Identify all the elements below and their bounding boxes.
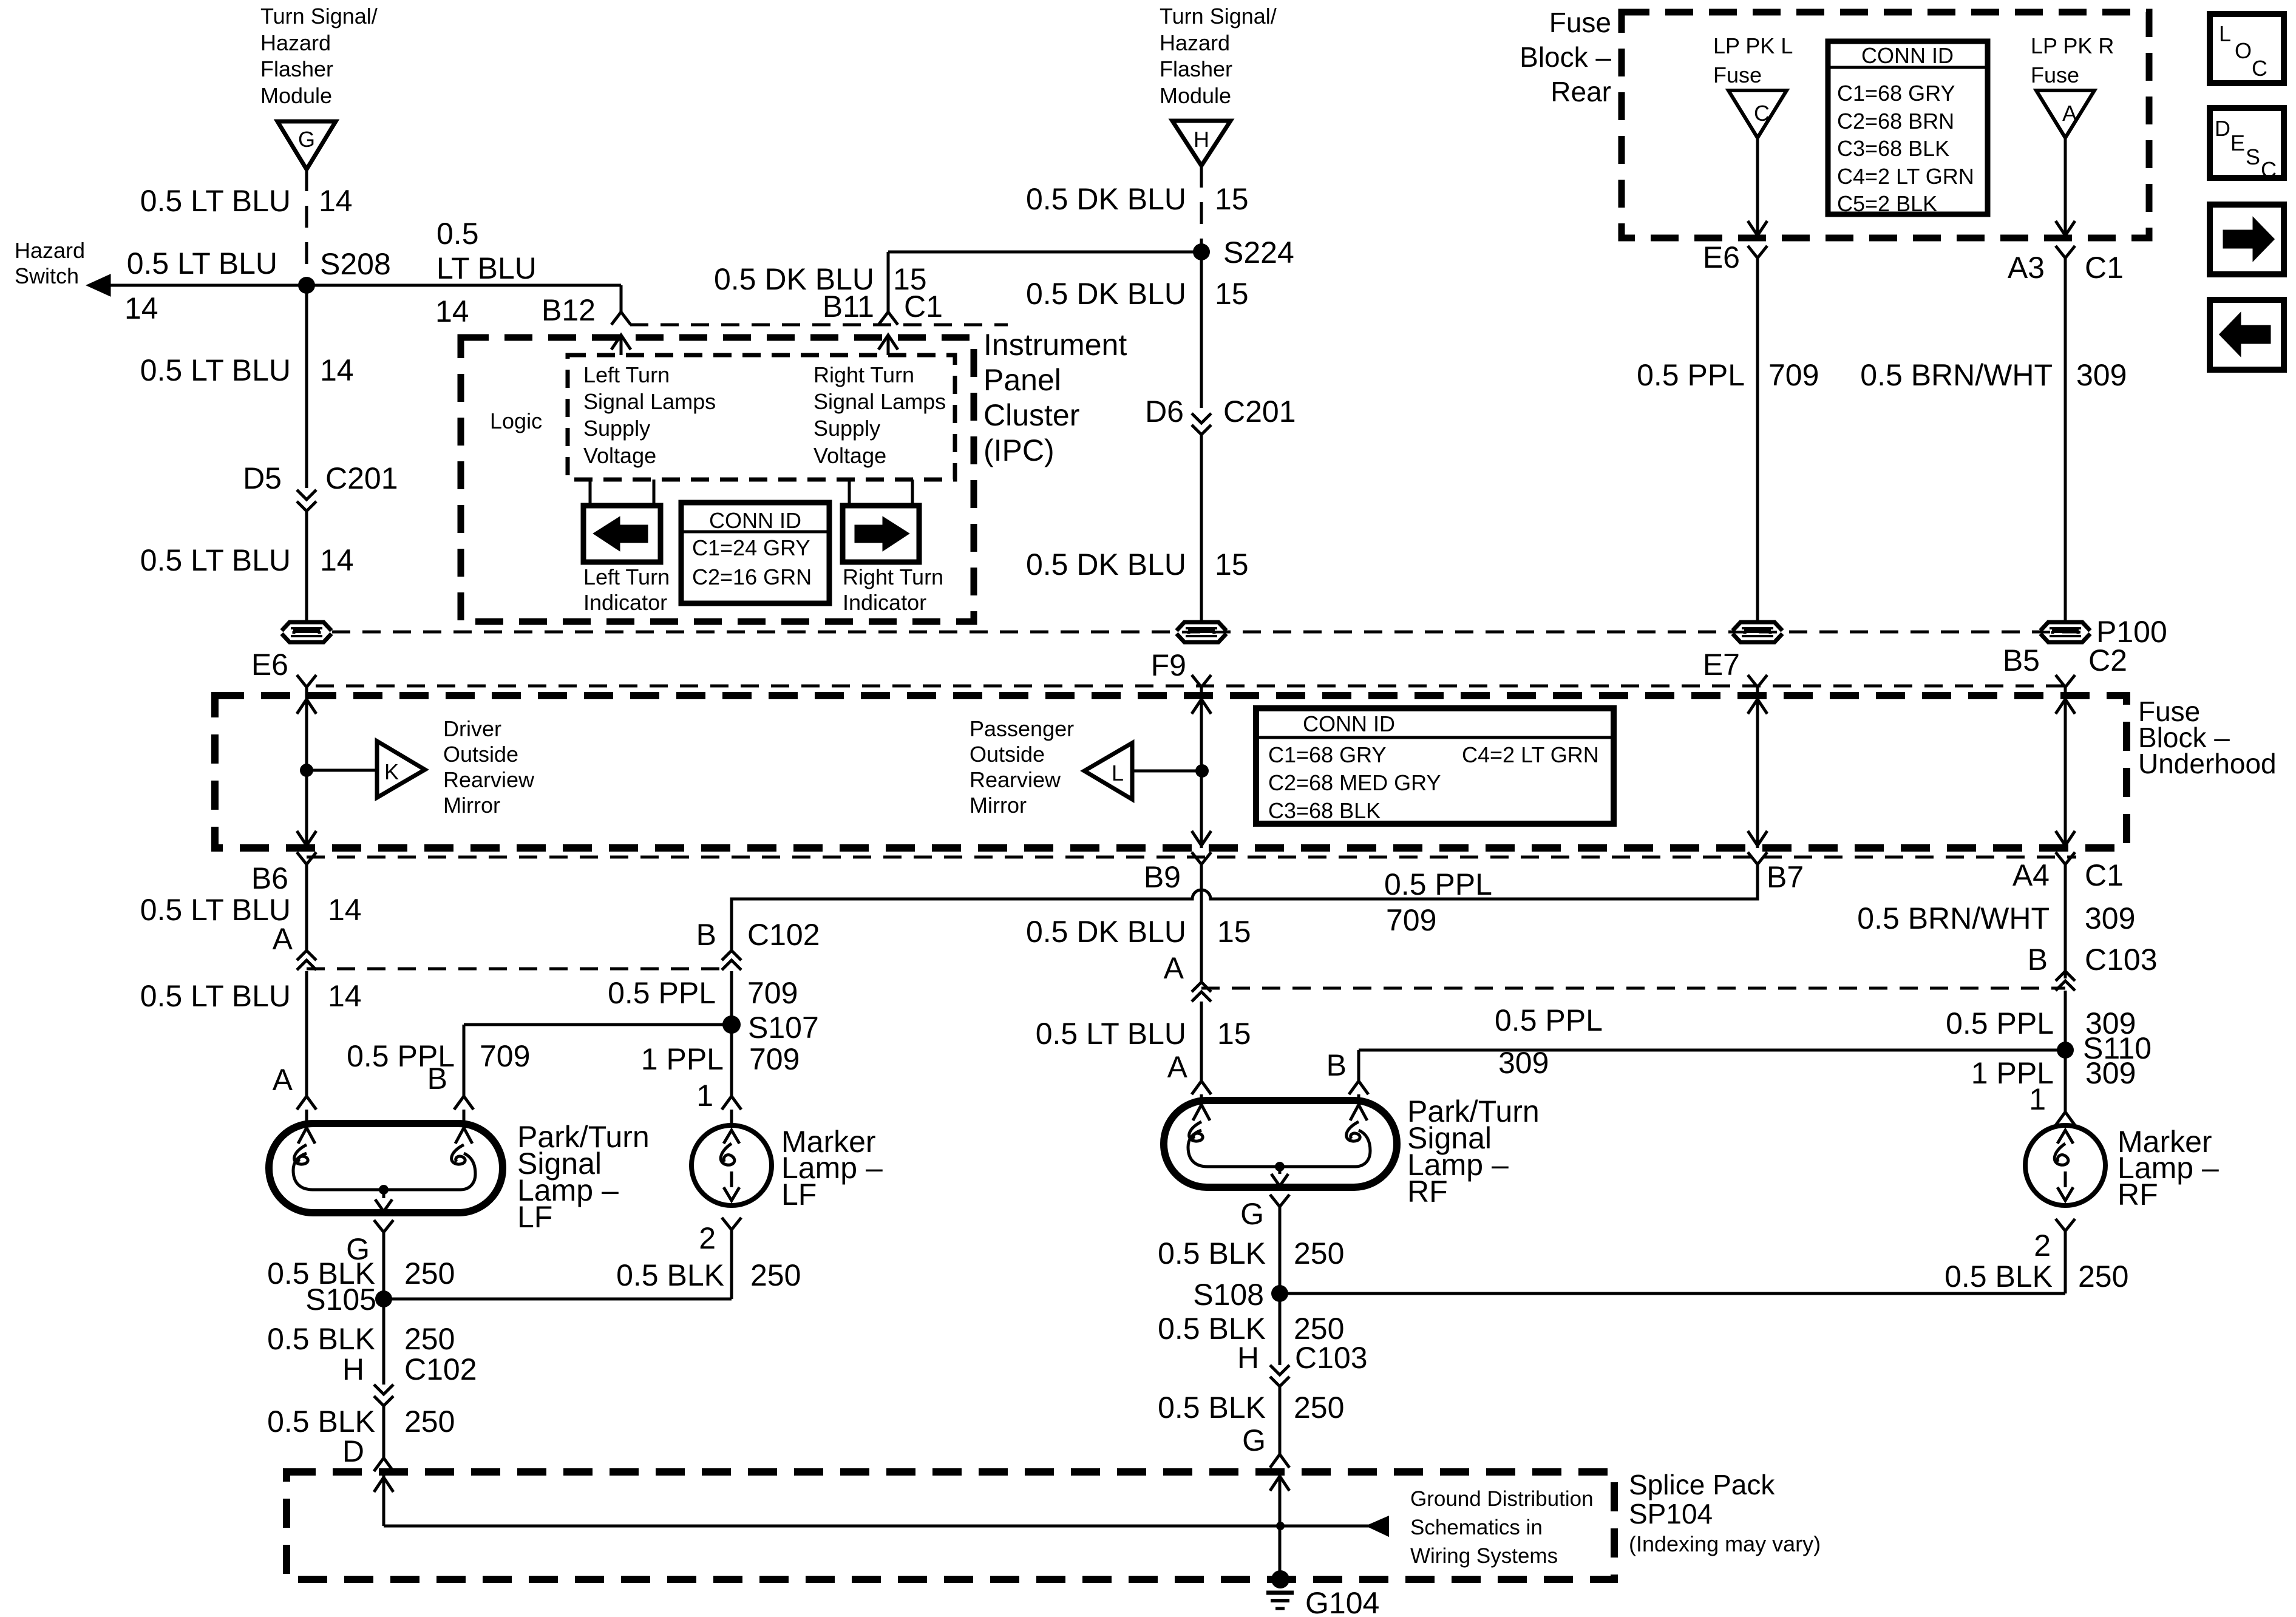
connector C103 pin A	[1192, 982, 1211, 1002]
svg-text:(Indexing may vary): (Indexing may vary)	[1629, 1531, 1821, 1556]
svg-text:C: C	[1754, 101, 1770, 126]
pin E6 fork	[297, 675, 316, 697]
branch S107 to LF lamp B	[464, 1025, 732, 1096]
label 0.5 LT BLU 15 (to RF lamp)	[1036, 1017, 1251, 1051]
svg-text:C102: C102	[404, 1352, 477, 1386]
wire E6 to P100	[1756, 258, 1759, 622]
svg-text:Flasher: Flasher	[260, 56, 333, 81]
fuse block rear box	[1622, 12, 2149, 238]
park/turn signal lamp RF body	[1164, 1100, 1397, 1187]
svg-text:Signal Lamps: Signal Lamps	[583, 389, 716, 414]
svg-text:309: 309	[2085, 901, 2135, 935]
svg-text:S: S	[2246, 144, 2260, 169]
label E6 (underhood pin)	[251, 648, 288, 682]
right turn indicator box	[843, 506, 919, 562]
label 0.5 DK BLU 15 (S224-D6)	[1026, 277, 1249, 311]
svg-text:C2=16 GRN: C2=16 GRN	[692, 564, 812, 589]
svg-text:15: 15	[1215, 547, 1249, 581]
svg-text:0.5 BLK: 0.5 BLK	[1944, 1259, 2053, 1293]
svg-text:1: 1	[2029, 1082, 2046, 1116]
svg-text:D6: D6	[1145, 395, 1184, 429]
ground distribution label	[1410, 1487, 1594, 1568]
svg-text:SP104: SP104	[1629, 1498, 1713, 1530]
label 1 PPL 309	[1971, 1056, 2136, 1090]
pins A3 C1 fork below rear fuse block	[2008, 246, 2124, 285]
svg-text:14: 14	[320, 543, 354, 577]
LP PK R fuse label	[2031, 33, 2114, 87]
turn signal/hazard flasher module label (center)	[1160, 4, 1277, 108]
svg-text:G: G	[1242, 1423, 1266, 1457]
wire S208 down to D5	[305, 285, 308, 488]
pin G of LF lamp	[346, 1220, 393, 1299]
park/turn RF label	[1407, 1094, 1540, 1209]
svg-text:A3: A3	[2008, 251, 2045, 285]
passenger mirror junction	[1132, 764, 1209, 778]
label 0.5 BLK 250 (marker LF)	[616, 1258, 801, 1292]
wire dashed from G to S208	[305, 169, 308, 284]
svg-text:Hazard: Hazard	[260, 30, 331, 55]
label E7	[1703, 648, 1740, 682]
label 0.5 LT BLU (to hazard switch)	[124, 246, 277, 325]
svg-text:LF: LF	[781, 1178, 817, 1212]
C102 dashed plane line	[307, 968, 732, 971]
fuse block rear label	[1520, 7, 1611, 107]
svg-text:0.5 BLK: 0.5 BLK	[1158, 1236, 1266, 1270]
svg-text:Hazard: Hazard	[1160, 30, 1230, 55]
svg-text:B: B	[2028, 943, 2048, 977]
IPC logic inner dashed box	[568, 355, 955, 480]
pin E7 fork	[1748, 675, 1767, 697]
splice S107	[722, 1011, 819, 1045]
svg-text:LT BLU: LT BLU	[436, 251, 537, 285]
svg-text:G104: G104	[1305, 1586, 1379, 1617]
label 1 PPL 709	[641, 1042, 800, 1076]
connector C103 pin H	[1237, 1293, 1368, 1454]
branch S110 to RF lamp B	[1359, 1050, 2065, 1081]
svg-text:C4=2 LT GRN: C4=2 LT GRN	[1462, 742, 1599, 767]
wire C102-A to lamp	[305, 971, 308, 1096]
svg-text:B12: B12	[542, 293, 596, 327]
svg-text:S208: S208	[320, 247, 391, 281]
svg-text:14: 14	[319, 184, 353, 218]
label 0.5 LT BLU 14 (G-S208)	[140, 184, 353, 218]
label F9 (underhood pin)	[1151, 648, 1186, 682]
labels B C103	[2028, 943, 2158, 977]
svg-text:0.5 LT BLU: 0.5 LT BLU	[140, 543, 291, 577]
svg-text:250: 250	[404, 1256, 455, 1290]
svg-text:B5: B5	[2003, 643, 2040, 677]
svg-text:0.5 LT BLU: 0.5 LT BLU	[140, 184, 291, 218]
svg-text:H: H	[342, 1352, 364, 1386]
svg-text:0.5 PPL: 0.5 PPL	[1637, 358, 1745, 392]
svg-text:Turn Signal/: Turn Signal/	[1160, 4, 1277, 29]
svg-text:0.5 PPL: 0.5 PPL	[1384, 867, 1492, 901]
RF lamp B filament	[1347, 1105, 1367, 1141]
svg-text:S107: S107	[748, 1011, 819, 1045]
svg-text:C102: C102	[747, 918, 820, 952]
splice S108	[1193, 1278, 1288, 1312]
svg-text:E6: E6	[251, 648, 288, 682]
svg-text:Supply: Supply	[583, 416, 650, 441]
left indicator stubs	[590, 480, 654, 506]
wire S208 to hazard switch with arrow	[89, 276, 307, 294]
svg-text:C103: C103	[1295, 1341, 1368, 1375]
svg-text:D: D	[2215, 116, 2230, 141]
underhood conn id text	[1268, 711, 1599, 823]
svg-text:Outside: Outside	[443, 742, 518, 767]
svg-text:309: 309	[2085, 1056, 2136, 1090]
label 0.5 BLK 250 (LF G)	[267, 1256, 455, 1290]
label 0.5 PPL over horizontal	[1384, 867, 1492, 937]
inline connector P100 on BRN/WHT wire	[2040, 622, 2090, 642]
underhood conn id box	[1256, 708, 1614, 824]
svg-text:C2: C2	[2088, 643, 2127, 677]
wire A fuse down	[2056, 138, 2075, 236]
svg-text:15: 15	[1217, 915, 1251, 949]
rear conn id text	[1837, 43, 1974, 216]
pin A of LF lamp	[273, 1063, 316, 1124]
label 0.5 LT BLU 14 (S208-D5)	[140, 353, 354, 387]
pin B5 fork	[2056, 675, 2075, 697]
svg-text:B11: B11	[823, 290, 874, 324]
svg-text:S105: S105	[305, 1283, 376, 1317]
svg-text:Flasher: Flasher	[1160, 56, 1232, 81]
svg-text:H: H	[1237, 1341, 1259, 1375]
svg-text:14: 14	[435, 294, 469, 328]
RF lamp A filament	[1189, 1105, 1210, 1141]
svg-text:E: E	[2230, 131, 2245, 155]
svg-text:Splice Pack: Splice Pack	[1629, 1469, 1775, 1500]
svg-text:B7: B7	[1767, 860, 1804, 894]
svg-text:B6: B6	[251, 861, 288, 895]
wire B6 to C102-A	[305, 864, 308, 951]
svg-text:Right Turn: Right Turn	[813, 362, 914, 387]
svg-text:Hazard: Hazard	[15, 238, 85, 263]
svg-text:Voltage: Voltage	[813, 443, 886, 468]
pin G of RF lamp	[1240, 1195, 1289, 1293]
flasher module connector triangle G	[277, 121, 336, 169]
svg-text:Logic: Logic	[490, 408, 542, 433]
wire S105 to marker LF drop	[384, 1298, 732, 1301]
wire B9 to C103-A	[1200, 864, 1203, 982]
svg-text:0.5 PPL: 0.5 PPL	[1946, 1006, 2054, 1040]
svg-text:A: A	[2062, 101, 2077, 126]
body harness dashed line above fuse block	[316, 685, 2076, 688]
labels 14 B12	[435, 293, 596, 328]
svg-text:A: A	[1164, 951, 1184, 985]
pin B9 fork	[1144, 852, 1211, 894]
wire S108 to marker RF drop	[1280, 1292, 2065, 1295]
svg-text:14: 14	[328, 893, 362, 927]
marker lamp LF bulb	[691, 1125, 772, 1205]
svg-text:0.5 PPL: 0.5 PPL	[1495, 1003, 1603, 1037]
park/turn signal lamp LF body	[269, 1124, 503, 1213]
wire G into splice pack	[1270, 1471, 1289, 1579]
driver mirror junction	[300, 764, 377, 777]
svg-text:C: C	[2261, 157, 2277, 182]
pin B of LF lamp	[427, 1062, 474, 1124]
splice pack SP104 box	[287, 1472, 1614, 1579]
wire S224 to B11 stub	[888, 252, 1201, 312]
svg-text:Cluster: Cluster	[983, 398, 1079, 432]
svg-text:S224: S224	[1223, 236, 1294, 269]
svg-text:14: 14	[320, 353, 354, 387]
left turn indicator box	[583, 506, 661, 562]
wire C102-B to marker LF	[730, 971, 733, 1096]
left turn supply voltage label	[583, 362, 716, 468]
svg-text:Schematics in: Schematics in	[1410, 1516, 1543, 1539]
svg-text:C201: C201	[1223, 395, 1296, 429]
svg-text:Wiring Systems: Wiring Systems	[1410, 1544, 1558, 1568]
inline connector P100 on PPL wire	[1733, 622, 1782, 642]
connector C201 pin D6	[1145, 395, 1296, 435]
svg-text:A4: A4	[2012, 858, 2050, 892]
svg-text:250: 250	[404, 1405, 455, 1439]
wire C103-B to marker RF	[2064, 991, 2067, 1112]
marker lamp RF bulb	[2025, 1125, 2105, 1205]
svg-text:C1: C1	[2085, 251, 2124, 285]
wire D into splice pack	[374, 1475, 393, 1526]
label 0.5 PPL 309 (below C103)	[1946, 1006, 2136, 1040]
svg-text:309: 309	[1498, 1046, 1549, 1080]
svg-text:Fuse: Fuse	[1549, 7, 1611, 38]
label 0.5 BRN/WHT 309 (A4)	[1857, 901, 2135, 935]
pin B7 fork	[1748, 852, 1804, 894]
ground distribution reference arrow	[1280, 1517, 1388, 1535]
driver mirror label	[443, 716, 535, 818]
svg-text:CONN ID: CONN ID	[1861, 43, 1954, 68]
svg-text:CONN ID: CONN ID	[1303, 711, 1395, 736]
RF lamp ground junction	[1271, 1162, 1288, 1186]
fuse wire inside block (BRN/WHT)	[2056, 696, 2075, 848]
fuse wire inside block (DK BLU)	[1192, 696, 1211, 848]
P100 dashed plane line	[332, 631, 2090, 634]
svg-text:1: 1	[696, 1079, 713, 1113]
IPC conn id text	[692, 508, 812, 589]
pin B12 fork into IPC	[611, 312, 631, 355]
label 0.5 PPL 709 (below C102)	[608, 976, 798, 1010]
svg-text:CONN ID: CONN ID	[709, 508, 801, 533]
svg-text:Passenger: Passenger	[970, 716, 1074, 741]
svg-text:Panel: Panel	[983, 363, 1061, 397]
svg-text:C3=68 BLK: C3=68 BLK	[1268, 798, 1381, 823]
connector C102 pin A	[297, 951, 316, 970]
label 0.5 DK BLU 15 (H-S224)	[1026, 182, 1249, 216]
svg-text:A: A	[273, 1063, 293, 1097]
labels A4 C1	[2012, 858, 2124, 892]
svg-text:Outside: Outside	[970, 742, 1045, 767]
svg-text:C103: C103	[2085, 943, 2158, 977]
label 0.5 BLK 250 (below S105)	[267, 1322, 455, 1356]
label 0.5 BLK 250 (below C103 H)	[1158, 1391, 1344, 1425]
RF lamp inner loop	[1188, 1130, 1370, 1167]
pin D fork at splice pack	[342, 1434, 393, 1471]
svg-text:C1: C1	[904, 290, 943, 324]
svg-text:LP PK R: LP PK R	[2031, 33, 2114, 58]
svg-text:0.5 PPL: 0.5 PPL	[608, 976, 716, 1010]
wire dashed from H to S224	[1200, 166, 1203, 251]
svg-text:C1=68 GRY: C1=68 GRY	[1837, 81, 1955, 106]
svg-text:709: 709	[1386, 903, 1436, 937]
label 0.5 BRN/WHT 309	[1860, 358, 2127, 392]
svg-text:Module: Module	[260, 83, 332, 108]
svg-text:0.5: 0.5	[436, 217, 479, 251]
inline connector P100 on DK BLU wire	[1177, 622, 1226, 642]
svg-text:0.5 BLK: 0.5 BLK	[267, 1322, 375, 1356]
svg-text:C2=68 BRN: C2=68 BRN	[1837, 109, 1954, 134]
svg-text:RF: RF	[1407, 1175, 1448, 1209]
svg-text:Turn Signal/: Turn Signal/	[260, 4, 378, 29]
fuse triangle C	[1728, 90, 1787, 138]
svg-text:309: 309	[2076, 358, 2127, 392]
svg-text:709: 709	[747, 976, 798, 1010]
svg-text:Rearview: Rearview	[443, 767, 535, 792]
svg-text:A: A	[273, 922, 293, 956]
svg-text:G: G	[1240, 1197, 1264, 1231]
label 0.5 BLK 250 (RF G)	[1158, 1236, 1344, 1270]
svg-text:C2=68 MED GRY: C2=68 MED GRY	[1268, 770, 1441, 795]
hazard switch label	[15, 238, 85, 288]
left arrow box	[2210, 300, 2284, 370]
svg-text:Right Turn: Right Turn	[843, 564, 943, 589]
svg-text:G: G	[298, 127, 315, 152]
svg-text:C1=24 GRY: C1=24 GRY	[692, 535, 810, 560]
labels B5 C2	[2003, 643, 2127, 677]
flasher module connector triangle H	[1172, 121, 1231, 166]
svg-text:Supply: Supply	[813, 416, 880, 441]
label 0.5 LT BLU 14 (D5-P100)	[140, 543, 354, 577]
svg-text:B: B	[1326, 1048, 1347, 1082]
svg-text:Voltage: Voltage	[583, 443, 656, 468]
svg-text:709: 709	[749, 1042, 800, 1076]
svg-text:D5: D5	[243, 461, 282, 495]
marker RF label	[2118, 1125, 2219, 1212]
fuse block underhood box	[215, 696, 2127, 848]
svg-text:0.5 BRN/WHT: 0.5 BRN/WHT	[1857, 901, 2050, 935]
svg-text:C201: C201	[325, 461, 398, 495]
svg-text:0.5 BLK: 0.5 BLK	[1158, 1391, 1266, 1425]
fuse triangle A	[2036, 90, 2094, 138]
wire D5 to P100	[305, 511, 308, 622]
svg-text:D: D	[342, 1434, 364, 1468]
svg-text:Indicator: Indicator	[843, 590, 926, 615]
IPC connector dashed line	[630, 324, 1008, 327]
pin E6 fork below rear fuse block	[1703, 240, 1767, 274]
connector C102 pin H	[342, 1299, 477, 1458]
LF lamp inner loop	[293, 1153, 475, 1190]
label 0.5 DK BLU 15 (B9)	[1026, 915, 1251, 949]
instrument panel cluster box	[461, 337, 974, 622]
svg-text:L: L	[2219, 21, 2231, 46]
pin 2 of marker RF	[2034, 1219, 2075, 1293]
svg-text:0.5 LT BLU: 0.5 LT BLU	[1036, 1017, 1186, 1051]
wire S208 to B12 stub	[307, 285, 621, 312]
pin B6 fork	[251, 852, 316, 895]
park/turn LF label	[517, 1120, 650, 1234]
splice pack internal bus	[384, 1522, 1285, 1530]
svg-text:C: C	[2252, 56, 2267, 81]
svg-text:S108: S108	[1193, 1278, 1264, 1312]
svg-text:1 PPL: 1 PPL	[641, 1042, 724, 1076]
splice S105	[305, 1283, 392, 1317]
LF lamp A filament	[294, 1128, 315, 1164]
label 0.5 PPL over branch	[1495, 1003, 1603, 1080]
svg-text:Mirror: Mirror	[443, 793, 500, 818]
svg-text:Underhood: Underhood	[2138, 748, 2277, 779]
svg-text:0.5 LT BLU: 0.5 LT BLU	[140, 979, 291, 1013]
svg-text:C5=2 BLK: C5=2 BLK	[1837, 191, 1937, 216]
label 0.5 PPL 709 (lamp B)	[347, 1039, 530, 1073]
pin 1 of marker RF	[2029, 1082, 2075, 1125]
svg-text:B9: B9	[1144, 860, 1181, 894]
svg-text:2: 2	[2034, 1229, 2051, 1263]
connector C102 pin B	[722, 951, 741, 970]
body harness dashed line below fuse block	[307, 856, 2076, 859]
svg-text:C1: C1	[2085, 858, 2124, 892]
splice S110	[2057, 1031, 2152, 1065]
label 0.5 DK BLU 15 (S224-B11)	[714, 262, 927, 296]
label 0.5 PPL 709	[1637, 358, 1819, 392]
svg-text:LF: LF	[517, 1200, 552, 1234]
C103 dashed plane line	[1201, 987, 2065, 990]
svg-text:0.5 LT BLU: 0.5 LT BLU	[127, 246, 277, 280]
label 0.5 DK BLU 15 (D6-P100)	[1026, 547, 1249, 581]
pin 2 of marker LF	[699, 1218, 741, 1299]
svg-text:15: 15	[1215, 182, 1249, 216]
passenger outside rearview mirror triangle L	[1084, 743, 1132, 799]
wire C103-A to RF lamp	[1200, 1002, 1203, 1081]
pin G fork at splice pack	[1242, 1423, 1289, 1468]
svg-text:250: 250	[1294, 1391, 1344, 1425]
svg-text:O: O	[2235, 38, 2252, 63]
right indicator stubs	[849, 480, 912, 506]
svg-text:Driver: Driver	[443, 716, 501, 741]
label 0.5 LT BLU 14 (to lamp)	[140, 979, 362, 1013]
svg-text:Signal Lamps: Signal Lamps	[813, 389, 946, 414]
label 0.5 LT BLU (S208-B12)	[436, 217, 537, 285]
svg-text:0.5 LT BLU: 0.5 LT BLU	[140, 893, 291, 927]
connector C201 pin D5	[243, 461, 398, 511]
rear conn id box	[1828, 41, 1988, 214]
LF lamp ground junction	[375, 1185, 392, 1212]
passenger mirror label	[970, 716, 1074, 818]
label P100	[2096, 615, 2167, 649]
right arrow box	[2210, 205, 2284, 274]
svg-text:Rear: Rear	[1550, 76, 1611, 107]
pin B11 fork into IPC	[878, 312, 898, 355]
pin 1 of marker LF	[696, 1079, 741, 1125]
svg-text:Switch: Switch	[15, 263, 79, 288]
fuse block underhood label	[2138, 696, 2277, 779]
wire D6 to P100	[1200, 435, 1203, 622]
svg-text:E7: E7	[1703, 648, 1740, 682]
wire A4 to C103-B	[2056, 852, 2075, 978]
driver outside rearview mirror triangle K	[377, 741, 425, 798]
marker LF label	[781, 1125, 883, 1212]
inline connector P100 on LT BLU wire	[282, 622, 331, 642]
svg-text:H: H	[1194, 127, 1209, 152]
splice S224	[1193, 236, 1294, 269]
svg-text:B: B	[696, 918, 716, 952]
svg-text:E6: E6	[1703, 240, 1740, 274]
svg-text:0.5 BLK: 0.5 BLK	[616, 1258, 724, 1292]
turn signal/hazard flasher module label (left)	[260, 4, 378, 108]
svg-text:B: B	[427, 1062, 447, 1096]
svg-text:14: 14	[328, 979, 362, 1013]
svg-text:Mirror: Mirror	[970, 793, 1027, 818]
labels B11 C1	[823, 290, 943, 324]
svg-text:14: 14	[124, 291, 158, 325]
